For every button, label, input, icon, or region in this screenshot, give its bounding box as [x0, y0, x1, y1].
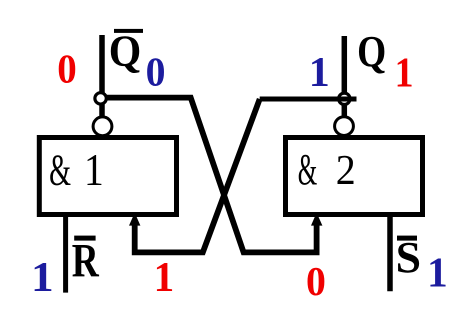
svg-text:R: R	[72, 235, 100, 287]
svg-text:1: 1	[309, 50, 330, 96]
svg-text:Q: Q	[357, 27, 386, 75]
svg-text:1: 1	[154, 254, 175, 300]
svg-text:0: 0	[146, 49, 166, 95]
svg-text:1: 1	[31, 254, 54, 300]
svg-text:0: 0	[57, 46, 76, 92]
svg-text:Q: Q	[109, 28, 142, 76]
svg-text:&: &	[298, 145, 318, 194]
svg-text:&: &	[49, 145, 71, 194]
svg-text:2: 2	[336, 146, 356, 193]
svg-text:1: 1	[84, 146, 104, 196]
svg-text:0: 0	[306, 258, 326, 304]
svg-text:1: 1	[395, 48, 414, 95]
svg-text:1: 1	[427, 249, 448, 295]
